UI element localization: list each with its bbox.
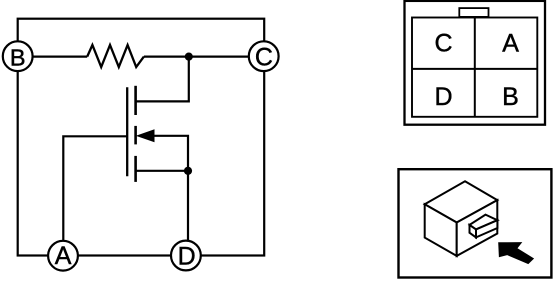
node B [3, 41, 33, 71]
node junction dot top [185, 53, 193, 61]
relay connector tab front face [470, 225, 477, 238]
connector pinout inner box [412, 18, 537, 117]
resistor [87, 45, 144, 67]
connector tab [459, 8, 488, 17]
svg-text:A: A [55, 242, 72, 270]
node junction dot source [184, 167, 192, 175]
wire drain: junction to MOSFET drain [136, 57, 189, 102]
svg-text:D: D [178, 242, 196, 270]
relay connector tab right face [476, 220, 497, 237]
svg-text:C: C [434, 30, 452, 58]
node A [48, 241, 78, 271]
svg-text:D: D [434, 83, 452, 111]
wire source [136, 170, 189, 172]
relay body right face [457, 200, 498, 256]
relay body left-front face [425, 204, 457, 256]
connector divider vertical [474, 18, 476, 117]
connector divider horizontal [412, 68, 537, 70]
wire gate to A [63, 136, 127, 255]
transistor Q1 (N-channel MOSFET) gate line [126, 87, 128, 176]
wire B to C with resistor R [18, 55, 88, 57]
relay connector tab top face [470, 215, 498, 230]
svg-text:A: A [502, 30, 519, 58]
svg-text:B: B [10, 45, 26, 71]
relay location box [399, 169, 552, 277]
wire resistor to C [144, 55, 265, 57]
wire body to source junction [152, 136, 188, 171]
node D [171, 241, 201, 271]
wire outer rectangle loop [18, 19, 265, 256]
arrow pointer [498, 242, 534, 264]
transistor Q1 body arrow [137, 130, 154, 142]
connector pinout outer box [405, 1, 546, 125]
svg-text:C: C [255, 44, 273, 72]
svg-text:B: B [502, 83, 519, 111]
node C [249, 41, 279, 71]
wire source junction to D [187, 171, 189, 256]
relay body top face [425, 181, 498, 222]
transistor Q1 channel segments [134, 86, 137, 115]
